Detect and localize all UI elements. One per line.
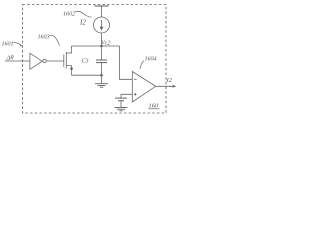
current source I2 (1602) (94, 17, 110, 33)
svg-text:C3: C3 (82, 59, 89, 65)
dashed box 160 (23, 5, 167, 114)
svg-text:Δθ: Δθ (6, 55, 15, 62)
label 1602 (63, 11, 92, 17)
wire reference to ground (120, 101, 122, 108)
wire capacitor to ground (101, 75, 103, 84)
svg-text:1603: 1603 (38, 35, 50, 41)
label 1601 (2, 42, 22, 48)
drain stub (66, 46, 71, 53)
channel (65, 52, 67, 69)
source dot (70, 67, 73, 70)
output wire I2 (156, 85, 174, 87)
svg-text:1601: 1601 (2, 42, 14, 48)
inverter 1603 (30, 53, 46, 69)
junction dot (source wire meets capacitor line) (100, 74, 103, 77)
wire op-amp noninverting input to reference (121, 94, 132, 98)
svg-text:Vc2: Vc2 (101, 40, 110, 46)
node Vc2 junction dot (100, 45, 103, 48)
svg-text:1604: 1604 (145, 56, 157, 63)
label 160 (underlined) (149, 103, 160, 110)
wire node to op-amp inverting input (120, 46, 133, 79)
supply rail bar (95, 5, 109, 7)
wire inverter output to gate (46, 60, 64, 62)
svg-text:I2: I2 (166, 77, 173, 84)
capacitor C3 (96, 46, 107, 75)
wire drain to node Vc2 (72, 45, 120, 47)
label 1603 (38, 35, 60, 46)
wire source to capacitor junction (72, 74, 102, 76)
svg-text:I2: I2 (79, 19, 86, 27)
wire input to inverter (5, 60, 30, 62)
reference battery (voltage source) (115, 98, 127, 101)
svg-text:160: 160 (149, 103, 160, 110)
op-amp 1604 (132, 72, 155, 103)
wire rail to current source (101, 6, 103, 17)
ground (capacitor branch) (95, 84, 108, 88)
ground (reference branch) (115, 108, 128, 111)
output arrowhead (173, 85, 177, 88)
transistor Q (NMOS) (64, 46, 73, 75)
gate plate (63, 55, 65, 68)
source stub (66, 66, 71, 76)
label 1604 (140, 56, 157, 70)
wire current source to node (101, 33, 103, 46)
svg-text:1602: 1602 (63, 12, 75, 18)
